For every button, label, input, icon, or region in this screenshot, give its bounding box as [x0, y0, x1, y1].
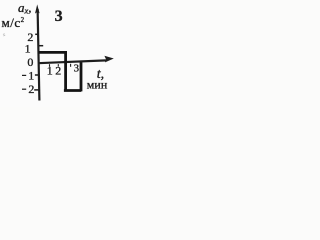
y-axis arrowhead [35, 4, 40, 13]
paper background [0, 0, 130, 107]
svg-text:1: 1 [25, 42, 31, 56]
svg-text:мин: мин [87, 77, 108, 91]
tick x=3 [70, 64, 72, 67]
svg-text:3: 3 [74, 64, 79, 75]
svg-text:0: 0 [27, 55, 33, 69]
graph step curve [39, 52, 82, 91]
svg-text:3: 3 [55, 8, 63, 25]
label -2 (y-axis) [22, 88, 26, 90]
svg-text:2: 2 [55, 64, 61, 78]
tick y=-1 [35, 74, 39, 76]
tick x=2 [57, 64, 59, 67]
tick y=2 [35, 33, 39, 35]
label -1 (y-axis) [22, 74, 26, 76]
scan speckle left [3, 34, 5, 36]
svg-text:1: 1 [47, 64, 53, 78]
tick y=-2 [34, 89, 39, 91]
tick y=1 [39, 45, 43, 47]
svg-text:2: 2 [28, 82, 34, 96]
x-axis arrowhead [104, 56, 113, 63]
x-axis [38, 60, 106, 63]
svg-text:1: 1 [28, 69, 34, 83]
tick x=1 [49, 64, 51, 67]
y-axis [38, 9, 40, 101]
